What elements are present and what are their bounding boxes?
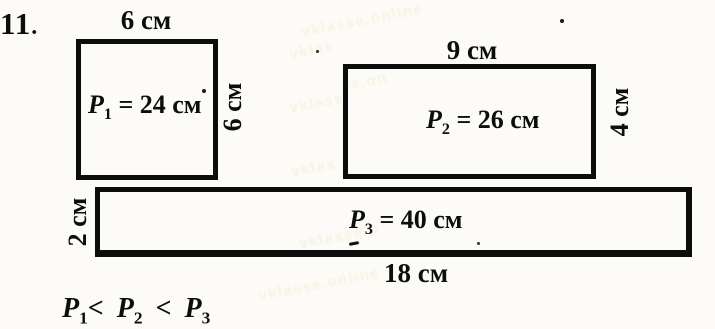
problem number 11. (0, 6, 38, 42)
watermark fragment above rect3 (290, 155, 337, 180)
label 6 cm right (rotated) (219, 79, 247, 135)
label 9 cm top (444, 35, 500, 66)
speck dot mid left (316, 50, 319, 53)
speck dot top right (560, 19, 564, 23)
watermark fragment top center (300, 0, 425, 40)
label 6 cm top (120, 5, 172, 36)
watermark fragment below rect3 (257, 264, 382, 304)
label P2 = 26 cm (426, 105, 540, 139)
label 2 cm left (rotated) (64, 194, 92, 250)
rectangle 3 (95, 187, 692, 257)
speck dot after 24 cm (202, 89, 206, 93)
formula P1 < P2 < P3 (62, 293, 210, 329)
watermark fragment inside rect3 (298, 221, 381, 253)
watermark fragment mid left (288, 90, 345, 117)
speck dash below P3 (349, 241, 359, 246)
label 4 cm right (rotated) (606, 84, 634, 140)
label P1 = 24 cm (88, 90, 202, 124)
watermark fragment near rect2 top-left (340, 69, 389, 95)
rectangle 2 (343, 64, 596, 179)
square rectangle 1 (76, 39, 218, 180)
speck dot inside rect3 right (477, 242, 480, 245)
label 18 cm bottom (384, 258, 448, 289)
label P3 = 40 cm (349, 205, 463, 239)
watermark fragment upper mid (288, 37, 335, 62)
